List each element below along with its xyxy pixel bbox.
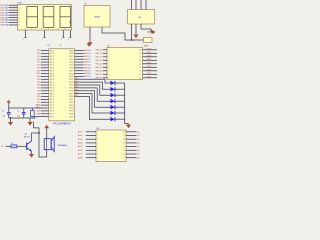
svg-text:OUT7: OUT7	[147, 73, 152, 75]
wire U1 to diode D1	[75, 79, 111, 83]
wire U3 right pin 5	[126, 146, 137, 148]
svg-text:OUT2: OUT2	[147, 55, 152, 57]
wire U4 top pin	[145, 0, 147, 10]
svg-text:13: 13	[139, 67, 141, 69]
wire U3 left pin 7	[86, 153, 96, 155]
svg-text:P1.7: P1.7	[50, 70, 54, 72]
wire U2 right pin 3	[143, 56, 158, 58]
wire U1 right pin 3	[75, 55, 84, 57]
wire U2 right pin 7	[143, 70, 158, 72]
svg-text:P0.4: P0.4	[70, 62, 74, 64]
svg-text:OUT5: OUT5	[147, 66, 152, 68]
svg-text:SEG_D4: SEG_D4	[96, 63, 103, 65]
IC U1 PIC16F887	[47, 45, 74, 126]
svg-text:LM016: LM016	[94, 16, 101, 18]
svg-text:AL5: AL5	[75, 88, 78, 91]
svg-text:C2: C2	[17, 111, 19, 113]
svg-text:AL3: AL3	[75, 83, 78, 86]
wire U1 to diode D2	[75, 82, 111, 89]
wire U2 right pin 2	[143, 52, 158, 54]
svg-text:D5: D5	[110, 105, 112, 107]
svg-text:Q2: Q2	[137, 135, 139, 137]
svg-text:D1: D1	[110, 81, 112, 83]
wire U2 left pin 3	[103, 56, 107, 58]
IC U3	[96, 128, 126, 161]
svg-text:D2: D2	[88, 56, 90, 58]
wire U1 right pin 4	[75, 58, 84, 60]
svg-text:SEG_D7: SEG_D7	[96, 74, 103, 76]
wire U1 right pin 7	[75, 67, 84, 69]
wire U1 left pin 7	[41, 67, 49, 69]
svg-text:P10: P10	[37, 50, 40, 52]
svg-text:8: 8	[19, 22, 20, 24]
svg-text:P0.3: P0.3	[70, 82, 74, 84]
wire display segment DISP_G	[9, 19, 18, 21]
svg-text:SEG_D3: SEG_D3	[96, 60, 103, 62]
svg-text:22p: 22p	[17, 115, 20, 117]
wire U1 left pin 11	[41, 78, 49, 80]
svg-text:SPEAKER: SPEAKER	[58, 144, 68, 147]
svg-text:P1.4: P1.4	[50, 62, 54, 64]
wire U4 top pin	[140, 0, 142, 10]
wire U2 right pin 1	[143, 49, 158, 51]
wire U2 right pin 8	[143, 73, 158, 75]
wire display segment DISP_F	[9, 17, 18, 19]
svg-text:15: 15	[139, 60, 141, 62]
svg-text:ALK1: ALK1	[78, 130, 82, 133]
resistor R1	[11, 143, 17, 148]
wire U1 left pin 16	[41, 93, 49, 95]
wire U2 right pin 9	[143, 77, 158, 79]
capacitor C2	[17, 108, 26, 118]
svg-text:ALK8: ALK8	[78, 156, 82, 159]
wire U1 right pin 6	[75, 64, 84, 66]
transistor Q1	[24, 134, 32, 152]
wire U1 left pin 17	[41, 96, 49, 98]
svg-text:P0.0: P0.0	[70, 73, 74, 75]
svg-text:5: 5	[108, 64, 109, 66]
wire U3 left pin 6	[86, 149, 96, 151]
IC U5 (LM016)	[84, 4, 110, 28]
wire display common 1	[25, 30, 27, 38]
wire U1 left pin 5	[41, 61, 49, 63]
svg-text:8: 8	[108, 74, 109, 76]
wire U1 right pin 2	[75, 52, 84, 54]
svg-text:Q7: Q7	[137, 154, 139, 156]
junction	[38, 132, 40, 134]
svg-text:Q4: Q4	[137, 143, 139, 145]
wire display segment DISP_C	[9, 9, 18, 11]
svg-text:P0.5: P0.5	[70, 65, 74, 67]
svg-text:7: 7	[108, 71, 109, 73]
svg-text:SEG_D1: SEG_D1	[96, 53, 103, 55]
svg-text:P0.1: P0.1	[70, 53, 74, 55]
svg-text:P1.6: P1.6	[50, 68, 54, 70]
wire U2 left pin 7	[103, 70, 107, 72]
svg-text:3: 3	[61, 39, 62, 41]
svg-text:9: 9	[108, 78, 109, 80]
svg-text:C1: C1	[2, 111, 4, 113]
diode D3	[110, 93, 115, 97]
svg-text:1: 1	[90, 25, 91, 27]
svg-text:3: 3	[19, 10, 20, 12]
svg-text:SEG_D0: SEG_D0	[96, 49, 103, 51]
wire base	[6, 145, 11, 147]
svg-text:P1.5: P1.5	[50, 111, 54, 113]
svg-text:P0.6: P0.6	[70, 113, 74, 115]
wire U1 to diode D3	[75, 85, 111, 95]
svg-text:P1.2: P1.2	[50, 56, 54, 58]
svg-text:7: 7	[19, 20, 20, 22]
svg-text:ALK2: ALK2	[78, 134, 82, 137]
wire collector	[32, 133, 40, 141]
svg-text:P1.1: P1.1	[50, 53, 54, 55]
diode D1	[110, 81, 115, 85]
wire U1 right pin 5	[75, 61, 84, 63]
svg-text:P0.2: P0.2	[70, 102, 74, 104]
svg-text:10: 10	[123, 154, 125, 156]
svg-text:10: 10	[58, 29, 60, 31]
svg-text:ALK3: ALK3	[78, 138, 82, 141]
wire U4 top pin	[135, 0, 137, 10]
svg-text:P33: P33	[37, 85, 40, 87]
svg-text:P35: P35	[37, 90, 40, 92]
svg-text:P0.0: P0.0	[70, 96, 74, 98]
svg-text:10: 10	[139, 78, 141, 80]
svg-text:2: 2	[108, 53, 109, 55]
wire U3 right pin 6	[126, 149, 137, 151]
wire U1 right pin 1	[75, 50, 84, 52]
svg-text:1k: 1k	[1, 146, 3, 148]
wire U1 left pin 14	[41, 87, 49, 89]
svg-text:ALK5: ALK5	[78, 145, 82, 148]
svg-text:P1.4: P1.4	[50, 108, 54, 110]
svg-text:2: 2	[19, 7, 20, 9]
svg-text:R1: R1	[11, 143, 13, 145]
svg-text:P1.3: P1.3	[50, 59, 54, 61]
svg-text:P15: P15	[37, 65, 40, 67]
svg-text:P14: P14	[37, 62, 40, 64]
svg-text:4MHz: 4MHz	[144, 46, 149, 48]
svg-text:P11: P11	[37, 53, 40, 55]
svg-text:1: 1	[108, 50, 109, 52]
svg-text:P0.7: P0.7	[70, 70, 74, 72]
wire display segment DISP_E	[9, 14, 18, 16]
wire U3 left pin 3	[86, 138, 96, 140]
svg-text:7: 7	[31, 29, 32, 31]
wire U1 to diode D4	[75, 88, 111, 101]
crystal X2	[144, 38, 153, 43]
svg-text:D7: D7	[110, 117, 112, 119]
svg-text:D1: D1	[88, 53, 90, 55]
wire U1 left pin 19	[41, 101, 49, 103]
diode D5	[110, 105, 115, 109]
svg-text:OUT4: OUT4	[147, 62, 152, 64]
svg-text:2: 2	[102, 25, 103, 27]
wire U3 left pin 4	[86, 142, 96, 144]
svg-text:9: 9	[19, 25, 20, 27]
svg-text:Q1: Q1	[137, 131, 139, 133]
wire U1 left pin 22	[41, 110, 49, 112]
svg-text:BC547: BC547	[24, 137, 31, 139]
wire U1 left pin 2	[41, 52, 49, 54]
svg-text:Q6: Q6	[137, 150, 139, 152]
wire diode D5 cathode	[115, 106, 125, 108]
svg-text:D3: D3	[88, 59, 90, 61]
IC U2	[107, 45, 143, 79]
speaker LS1	[44, 137, 67, 152]
wire U1 right pin 9	[75, 73, 84, 75]
wire U3 right pin 4	[126, 142, 137, 144]
svg-text:P0.6: P0.6	[70, 68, 74, 70]
svg-text:P1.6: P1.6	[50, 113, 54, 115]
svg-text:11: 11	[123, 150, 125, 152]
svg-text:4: 4	[19, 12, 20, 14]
svg-text:40: 40	[60, 45, 62, 47]
wire U2 left pin 6	[103, 66, 107, 68]
wire diode D3 cathode	[115, 94, 125, 96]
svg-text:6: 6	[19, 17, 20, 19]
svg-text:P1.3: P1.3	[50, 105, 54, 107]
wire display common 4	[69, 30, 71, 38]
wire U4 pin	[135, 24, 137, 34]
wire U1 to diode D5	[75, 91, 111, 107]
svg-text:P16: P16	[37, 67, 40, 69]
svg-text:5: 5	[19, 15, 20, 17]
wire U3 right pin 1	[126, 131, 137, 133]
svg-text:P0.5: P0.5	[70, 111, 74, 113]
svg-text:P0.5: P0.5	[70, 88, 74, 90]
wire U2 right pin 6	[143, 66, 158, 68]
wire diode D7 cathode	[115, 118, 125, 120]
wire display common 2	[44, 30, 46, 38]
wire U4 top pin	[131, 0, 133, 10]
wire U3 left pin 2	[86, 135, 96, 137]
svg-text:PA8: PA8	[5, 24, 8, 27]
wire U4 pin to VCC flag	[141, 24, 151, 32]
ground	[31, 153, 33, 155]
svg-text:D4: D4	[88, 62, 90, 64]
ground	[29, 121, 31, 123]
wire U1 right pin 8	[75, 70, 84, 72]
svg-text:P1.3: P1.3	[50, 82, 54, 84]
svg-text:D3: D3	[110, 93, 112, 95]
wire U2 left pin 5	[103, 63, 107, 65]
svg-text:DS8: DS8	[0, 25, 4, 27]
svg-text:P0.7: P0.7	[70, 93, 74, 95]
power flag VCC	[148, 31, 152, 33]
svg-text:ALK4: ALK4	[78, 142, 82, 145]
svg-text:D0: D0	[88, 50, 90, 52]
svg-text:P1.2: P1.2	[50, 102, 54, 104]
svg-text:P37: P37	[37, 96, 40, 98]
svg-text:Q8: Q8	[137, 157, 139, 159]
wire U2 left pin 4	[103, 59, 107, 61]
svg-text:22p: 22p	[2, 115, 5, 117]
svg-text:OUT0: OUT0	[147, 48, 152, 50]
svg-text:D7: D7	[88, 70, 90, 72]
svg-text:P17: P17	[37, 70, 40, 72]
ground	[10, 121, 12, 123]
wire U1 left pin 4	[41, 58, 49, 60]
svg-text:P32: P32	[37, 82, 40, 84]
svg-text:P34: P34	[37, 88, 40, 90]
svg-text:SEG_D2: SEG_D2	[96, 56, 103, 58]
svg-text:12: 12	[123, 146, 125, 148]
svg-text:P0.1: P0.1	[70, 99, 74, 101]
wire speaker bottom	[46, 150, 48, 157]
ground top	[8, 100, 10, 102]
svg-text:P0.6: P0.6	[70, 90, 74, 92]
svg-text:OUT8: OUT8	[147, 76, 152, 78]
svg-text:D6: D6	[110, 111, 112, 113]
ground	[89, 41, 91, 43]
svg-text:P36: P36	[37, 93, 40, 95]
wire U2 right pin 5	[143, 63, 158, 65]
wire U1 left pin 6	[41, 64, 49, 66]
svg-text:17: 17	[139, 53, 141, 55]
svg-text:16: 16	[123, 132, 125, 134]
svg-text:4: 4	[108, 60, 109, 62]
svg-text:4: 4	[68, 39, 69, 41]
crystal X1	[31, 111, 35, 117]
svg-text:P0.4: P0.4	[70, 108, 74, 110]
svg-text:11: 11	[65, 29, 67, 31]
svg-text:D4: D4	[110, 99, 112, 101]
wire U5 pin2	[102, 27, 144, 40]
wire U2 left pin 1	[103, 49, 107, 51]
svg-text:6: 6	[108, 67, 109, 69]
svg-text:P12: P12	[37, 56, 40, 58]
svg-text:14: 14	[123, 139, 125, 141]
svg-text:D5: D5	[88, 65, 90, 67]
wire display segment DISP_A	[9, 4, 18, 6]
svg-text:ALK7: ALK7	[78, 153, 82, 156]
svg-text:Q5: Q5	[137, 146, 139, 148]
wire U3 right pin 2	[126, 135, 137, 137]
wire U3 right pin 7	[126, 153, 137, 155]
wire U1 to diode D7	[75, 97, 111, 120]
svg-text:9: 9	[124, 157, 125, 159]
svg-text:3: 3	[108, 57, 109, 59]
wire U1 left pin 23	[41, 113, 49, 115]
capacitor C1	[2, 108, 11, 118]
wire display segment DISP_D	[9, 12, 18, 14]
wire U1 left pin 12	[41, 81, 49, 83]
svg-text:AL4: AL4	[75, 86, 78, 89]
diode D7	[110, 117, 115, 121]
svg-text:P30: P30	[37, 76, 40, 78]
svg-text:P1.7: P1.7	[50, 93, 54, 95]
svg-text:P0.2: P0.2	[70, 79, 74, 81]
svg-text:P1.2: P1.2	[50, 79, 54, 81]
svg-text:D6: D6	[88, 67, 90, 69]
wire speaker top	[46, 128, 48, 139]
svg-text:ALK6: ALK6	[78, 149, 82, 152]
wire	[29, 118, 31, 122]
svg-text:P1.7: P1.7	[50, 116, 54, 118]
svg-text:9: 9	[48, 29, 49, 31]
wire U1 right pin 10	[75, 75, 84, 77]
power flag to U3	[128, 123, 130, 125]
svg-text:14: 14	[139, 64, 141, 66]
wire U3 left pin 8	[86, 157, 96, 159]
wire U1 left pin 20	[41, 104, 49, 106]
svg-text:P31: P31	[37, 79, 40, 81]
wire diode D6 cathode	[115, 112, 125, 114]
wire U1 left pin 9	[41, 73, 49, 75]
power flag VCC speaker	[44, 125, 49, 128]
wire U1 left pin 1	[41, 50, 49, 52]
svg-text:AL7: AL7	[75, 94, 78, 97]
svg-text:AL6: AL6	[75, 91, 78, 94]
junction	[10, 117, 12, 119]
svg-text:8: 8	[41, 29, 42, 31]
diode D4	[110, 99, 115, 103]
svg-text:OUT6: OUT6	[147, 69, 152, 71]
wire U1 left pin 15	[41, 90, 49, 92]
svg-text:DIS1: DIS1	[18, 3, 24, 5]
diode D6	[110, 111, 115, 115]
svg-text:P1.6: P1.6	[50, 90, 54, 92]
svg-text:1: 1	[23, 39, 24, 41]
wire U2 left pin 9	[103, 77, 107, 79]
svg-text:P0.1: P0.1	[70, 76, 74, 78]
wire crystal top	[31, 108, 33, 111]
svg-text:D2: D2	[110, 87, 112, 89]
wire crystal bottom to OSC2	[31, 116, 33, 119]
wire U1 left pin 18	[41, 98, 49, 100]
svg-text:P1.1: P1.1	[50, 76, 54, 78]
svg-text:P1.5: P1.5	[50, 65, 54, 67]
wire U2 right pin 4	[143, 59, 158, 61]
svg-text:AL1: AL1	[75, 77, 78, 80]
svg-text:16: 16	[139, 57, 141, 59]
diode D2	[110, 87, 115, 91]
wire display common 3	[62, 30, 64, 38]
svg-text:SEG_D6: SEG_D6	[96, 70, 103, 72]
svg-text:P1.0: P1.0	[50, 96, 54, 98]
svg-text:P1.5: P1.5	[50, 88, 54, 90]
wire U1 to diode D6	[75, 94, 111, 113]
svg-text:D1: D1	[88, 76, 90, 78]
wire display segment DISP_B	[9, 7, 18, 9]
svg-text:P13: P13	[37, 59, 40, 61]
svg-text:15: 15	[123, 135, 125, 137]
svg-text:MSD: MSD	[70, 19, 72, 24]
wire U1 left pin 10	[41, 75, 49, 77]
svg-text:12: 12	[139, 71, 141, 73]
svg-text:X1: X1	[36, 104, 38, 106]
junction	[131, 39, 133, 41]
svg-text:4MHz: 4MHz	[36, 107, 41, 109]
wire diode D4 cathode	[115, 100, 125, 102]
wire U1 bottom pin to collector node	[34, 122, 47, 158]
svg-text:P1.0: P1.0	[50, 50, 54, 52]
svg-text:2: 2	[42, 39, 43, 41]
svg-text:D0: D0	[88, 73, 90, 75]
svg-text:1: 1	[19, 5, 20, 7]
svg-text:P0.3: P0.3	[70, 59, 74, 61]
svg-text:P1.1: P1.1	[50, 99, 54, 101]
svg-text:Q3: Q3	[137, 139, 139, 141]
svg-text:P0.0: P0.0	[70, 50, 74, 52]
svg-text:PIC16F887A: PIC16F887A	[53, 122, 70, 126]
svg-text:OUT3: OUT3	[147, 59, 152, 61]
wire U3 left pin 5	[86, 146, 96, 148]
wire diode D1 cathode	[115, 82, 125, 84]
svg-text:OUT1: OUT1	[147, 52, 152, 54]
